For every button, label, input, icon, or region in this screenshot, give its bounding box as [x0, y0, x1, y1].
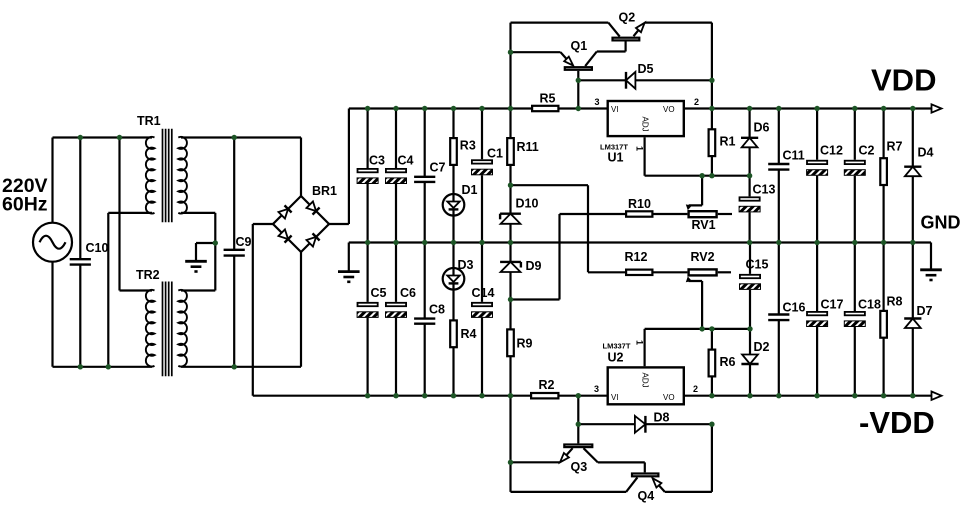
wire Q3 emitter	[511, 448, 573, 462]
diode D5	[626, 62, 654, 89]
svg-text:C18: C18	[858, 298, 881, 312]
wire positive raw rail y=108.5	[349, 107, 932, 109]
wire R1 leads	[711, 109, 713, 176]
wire Q1/Q2 left vertical	[509, 23, 511, 109]
svg-text:RV1: RV1	[692, 218, 716, 232]
svg-text:GND: GND	[921, 213, 961, 233]
wire U1 ADJ net	[645, 137, 750, 175]
transistor Q2	[613, 11, 640, 41]
svg-text:VDD: VDD	[871, 63, 936, 98]
wire TR2 secondary top	[181, 289, 215, 291]
svg-text:C14: C14	[472, 286, 495, 300]
svg-text:D1: D1	[462, 183, 478, 197]
svg-text:R10: R10	[628, 197, 651, 211]
resistor R6	[709, 350, 736, 377]
transistor Q4	[632, 474, 658, 504]
wire RV1 wiper	[689, 176, 703, 206]
wire Q2 emitter	[634, 23, 712, 37]
wire C8 leads	[424, 243, 426, 396]
wire D3/R4 leads	[452, 243, 454, 396]
svg-text:R8: R8	[887, 295, 903, 309]
capacitor C18	[844, 298, 881, 327]
svg-text:C2: C2	[859, 144, 875, 158]
wire Q1 collector diag	[585, 52, 597, 67]
svg-text:C17: C17	[821, 298, 844, 312]
ground secondary center tap	[185, 261, 207, 271]
svg-text:D10: D10	[516, 197, 539, 211]
bridge diode bottom-right	[306, 233, 319, 246]
capacitor C6	[386, 286, 417, 317]
svg-text:2: 2	[693, 384, 698, 394]
svg-text:C3: C3	[369, 154, 385, 168]
svg-text:R11: R11	[517, 140, 539, 154]
capacitor C7	[414, 161, 445, 182]
wire R11/D10 leads	[509, 109, 511, 243]
arrowhead Q1 emitter	[564, 57, 573, 66]
capacitor C13	[739, 183, 775, 212]
resistor R2	[531, 378, 558, 398]
svg-text:D3: D3	[458, 258, 474, 272]
svg-text:VI: VI	[611, 105, 619, 114]
wire RV1 right stub	[718, 213, 732, 215]
wire RV2 right stub	[718, 271, 731, 273]
svg-text:RV2: RV2	[691, 250, 715, 264]
wire AC source vertical leads	[51, 138, 53, 367]
wire C10 leads	[79, 138, 81, 367]
svg-text:1: 1	[635, 146, 645, 151]
arrowhead RV1 wiper	[686, 204, 692, 210]
ground GND rail right end	[920, 270, 942, 280]
resistor R8	[880, 295, 902, 338]
zener diode D10	[500, 197, 538, 224]
svg-text:C10: C10	[86, 241, 109, 255]
svg-text:Q1: Q1	[571, 39, 588, 53]
arrowhead RV2 wiper	[686, 276, 692, 282]
wire Q2 collector diag	[608, 23, 619, 37]
wire C13 leads	[748, 176, 750, 243]
resistor R1	[709, 129, 736, 156]
svg-text:D5: D5	[638, 62, 654, 76]
svg-text:C16: C16	[783, 301, 806, 315]
wire C18 leads	[854, 243, 856, 396]
svg-text:VO: VO	[663, 393, 675, 402]
resistor R3	[450, 138, 476, 165]
resistor R5	[532, 92, 558, 112]
wire C1 leads	[481, 109, 483, 243]
diode D4	[904, 146, 933, 177]
wire D4 leads	[912, 109, 914, 243]
svg-text:C12: C12	[820, 144, 843, 158]
svg-text:R9: R9	[517, 337, 533, 351]
resistor R9	[507, 329, 532, 356]
wire C15 leads	[749, 243, 751, 329]
svg-text:60Hz: 60Hz	[2, 194, 48, 216]
svg-text:U2: U2	[608, 351, 624, 365]
wire AC top distribution y=137.5	[53, 136, 153, 138]
transformer TR2 primary winding	[146, 290, 155, 367]
wire Q3 collector diag	[584, 448, 645, 472]
wire D2 leads	[749, 329, 751, 396]
wire C2 leads	[854, 109, 856, 243]
wire GND rail y=242.5	[349, 243, 931, 272]
wire Q3 base / D8 vertical	[577, 396, 579, 444]
capacitor C17	[807, 298, 844, 327]
svg-text:D8: D8	[654, 411, 670, 425]
wire C9 leads	[233, 138, 235, 367]
wire BR1 positive output	[329, 109, 349, 225]
capacitor C5	[357, 286, 386, 317]
wire C5 leads	[367, 243, 369, 396]
wire C11 leads	[778, 109, 780, 243]
junction dots pre-regulator	[508, 50, 753, 465]
wire negative raw rail y=395.7	[253, 395, 932, 397]
capacitor C1	[472, 147, 504, 175]
capacitor C2	[844, 144, 874, 176]
wire D7 leads	[912, 243, 914, 396]
svg-text:2: 2	[694, 97, 699, 107]
diode D1	[443, 183, 478, 216]
wire top loop	[511, 22, 609, 24]
svg-text:TR2: TR2	[136, 268, 160, 282]
svg-text:R2: R2	[539, 378, 555, 392]
svg-text:C8: C8	[429, 303, 445, 317]
wire C6 leads	[395, 243, 397, 396]
op-amp regulator U2 LM337T box	[608, 367, 684, 404]
wire Q2 base link	[597, 42, 626, 52]
junction dots bottom distribution	[78, 364, 237, 369]
wire Q2 emitter vertical to VO	[711, 23, 713, 109]
svg-text:TR1: TR1	[137, 114, 161, 128]
capacitor C12	[807, 144, 843, 176]
svg-text:VO: VO	[663, 105, 675, 114]
capacitor C11	[768, 149, 805, 170]
wire R6 leads	[711, 329, 713, 396]
svg-text:D9: D9	[526, 259, 542, 273]
AC source V1 220V/60Hz	[33, 223, 72, 262]
svg-text:C9: C9	[236, 235, 252, 249]
diode D2	[741, 340, 769, 364]
svg-text:R4: R4	[461, 327, 477, 341]
resistor R12	[625, 250, 653, 275]
svg-text:C11: C11	[783, 149, 805, 163]
arrowhead Q3 emitter	[560, 453, 569, 462]
junction dots negative rail	[365, 393, 916, 398]
svg-text:R6: R6	[720, 355, 736, 369]
diode D8	[635, 411, 670, 433]
svg-text:-VDD: -VDD	[859, 405, 935, 440]
wire RV2 wiper	[689, 281, 703, 329]
wire C4 leads	[395, 109, 397, 243]
wire TR1 secondary bottom to center tap	[181, 213, 215, 291]
svg-text:R3: R3	[460, 139, 476, 153]
wire D6 leads	[748, 109, 750, 176]
svg-text:BR1: BR1	[312, 184, 337, 198]
capacitor C8	[414, 303, 445, 324]
bridge diode top-left	[278, 205, 291, 218]
junction dot center tap	[213, 240, 218, 245]
wire C17 leads	[816, 243, 818, 396]
svg-text:ADJ: ADJ	[641, 373, 650, 388]
svg-text:C7: C7	[430, 161, 446, 175]
transformer TR1 primary winding	[146, 137, 155, 214]
VDD arrow terminal	[932, 104, 942, 112]
resistor R4	[450, 320, 476, 347]
transistor Q1	[565, 39, 592, 70]
svg-text:Q3: Q3	[571, 460, 588, 474]
junction dots positive rail	[365, 106, 916, 111]
wire C3 leads	[367, 109, 369, 243]
wire TR1 primary return	[108, 213, 152, 367]
arrowhead Q2 emitter	[636, 23, 645, 32]
zener diode D9	[500, 259, 541, 273]
capacitor C4	[386, 154, 414, 184]
capacitor C10	[70, 241, 109, 265]
svg-text:C5: C5	[371, 286, 387, 300]
bridge rectifier BR1 diamond	[273, 196, 329, 252]
wire D10 tap to R12	[511, 185, 589, 272]
bridge diode bottom-left	[278, 229, 291, 242]
svg-text:U1: U1	[608, 151, 624, 165]
wire Q1 emitter	[511, 52, 567, 59]
-VDD arrow terminal	[932, 392, 942, 400]
capacitor C16	[768, 301, 805, 321]
bridge diode top-right	[306, 201, 319, 214]
transformer TR2 secondary winding	[178, 290, 187, 367]
wire C12 leads	[816, 109, 818, 243]
wire R10 net	[560, 213, 688, 215]
potentiometer RV1	[689, 211, 717, 232]
wire Q1 base / pin3 vertical	[577, 71, 579, 109]
transformer TR2 core	[163, 282, 172, 377]
svg-text:R5: R5	[540, 92, 556, 106]
svg-text:Q4: Q4	[638, 489, 655, 503]
wire D9/R9 leads	[509, 243, 511, 396]
wire AC bottom distribution y=366.8	[53, 366, 153, 368]
svg-text:D6: D6	[754, 121, 770, 135]
junction dots GND rail	[365, 240, 916, 245]
svg-text:D2: D2	[754, 340, 770, 354]
capacitor C3	[357, 154, 385, 184]
wire center-tap ground stub	[196, 243, 215, 261]
op-amp regulator U1 LM317T box	[608, 101, 684, 136]
resistor R10	[626, 197, 652, 217]
svg-text:VI: VI	[611, 393, 619, 402]
svg-text:Q2: Q2	[619, 11, 636, 25]
transformer TR1 secondary winding	[178, 137, 187, 214]
resistor R11	[507, 138, 539, 165]
svg-text:C4: C4	[398, 154, 414, 168]
svg-text:R12: R12	[625, 250, 648, 264]
capacitor C15	[740, 258, 769, 290]
wire Q3/Q4 left vertical	[509, 396, 511, 492]
wire C14 leads	[481, 243, 483, 396]
wire R7 leads	[882, 109, 884, 243]
svg-text:C15: C15	[746, 258, 769, 272]
diode D7	[904, 304, 932, 328]
wire D8 link	[578, 423, 712, 425]
diode D3	[443, 258, 474, 290]
svg-text:R7: R7	[887, 140, 903, 154]
wire BR1 negative output	[253, 224, 273, 396]
capacitor C9	[224, 235, 252, 256]
wire U2 ADJ net	[645, 329, 750, 366]
wire D9 tap to R10	[511, 214, 560, 300]
wire TR2 secondary bottom rail	[181, 252, 301, 367]
svg-text:3: 3	[594, 384, 599, 394]
wire TR2 primary feed	[120, 138, 153, 291]
capacitor C14	[472, 286, 495, 317]
transformer TR1 core	[163, 129, 172, 223]
svg-text:LM337T: LM337T	[603, 342, 631, 351]
svg-text:C1: C1	[487, 147, 503, 161]
resistor R7	[880, 140, 902, 186]
wire R3/D1 leads	[452, 109, 454, 243]
diode D6	[741, 121, 770, 148]
svg-text:C13: C13	[753, 183, 776, 197]
ground GND rail left end	[338, 272, 360, 282]
transistor Q3	[564, 445, 592, 475]
svg-text:D4: D4	[918, 146, 934, 160]
svg-text:C6: C6	[400, 286, 416, 300]
wire R8 leads	[882, 243, 884, 396]
svg-text:ADJ: ADJ	[641, 117, 650, 132]
wire C16 leads	[778, 243, 780, 396]
svg-text:D7: D7	[917, 304, 933, 318]
wire D5 link	[578, 79, 712, 81]
wire C7 leads	[424, 109, 426, 243]
wire Q4 emitter	[659, 424, 712, 492]
svg-text:1: 1	[635, 340, 645, 345]
svg-text:3: 3	[595, 97, 600, 107]
wire TR1 secondary top rail	[181, 138, 301, 197]
wire R12 net	[588, 271, 687, 273]
svg-text:R1: R1	[720, 135, 736, 149]
junction dots top distribution	[78, 135, 237, 140]
potentiometer RV2	[689, 250, 717, 275]
wire Q4 collector	[511, 477, 638, 492]
arrowhead Q4 emitter	[653, 478, 662, 487]
